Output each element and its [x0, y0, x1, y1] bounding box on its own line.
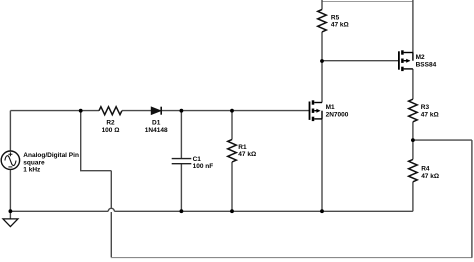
svg-text:2N7000: 2N7000 [326, 111, 349, 118]
svg-text:100 nF: 100 nF [193, 163, 214, 170]
svg-text:R3: R3 [421, 104, 430, 111]
svg-text:R5: R5 [331, 14, 340, 21]
svg-text:47 kΩ: 47 kΩ [421, 112, 439, 119]
svg-text:D1: D1 [152, 120, 161, 127]
svg-text:R2: R2 [106, 120, 115, 127]
svg-text:M2: M2 [416, 54, 425, 61]
svg-text:Analog/Digital Pin: Analog/Digital Pin [23, 152, 79, 159]
svg-text:C1: C1 [193, 156, 202, 163]
svg-text:100 Ω: 100 Ω [102, 127, 120, 134]
svg-text:1N4148: 1N4148 [145, 127, 168, 134]
svg-text:square: square [23, 159, 45, 166]
svg-text:M1: M1 [326, 104, 335, 111]
svg-text:R4: R4 [421, 166, 430, 173]
svg-text:47 kΩ: 47 kΩ [331, 22, 349, 29]
svg-text:47 kΩ: 47 kΩ [421, 173, 439, 180]
svg-text:47 kΩ: 47 kΩ [238, 151, 256, 158]
svg-text:BSS84: BSS84 [416, 62, 437, 69]
svg-text:1 kHz: 1 kHz [23, 167, 41, 174]
svg-text:R1: R1 [238, 144, 247, 151]
